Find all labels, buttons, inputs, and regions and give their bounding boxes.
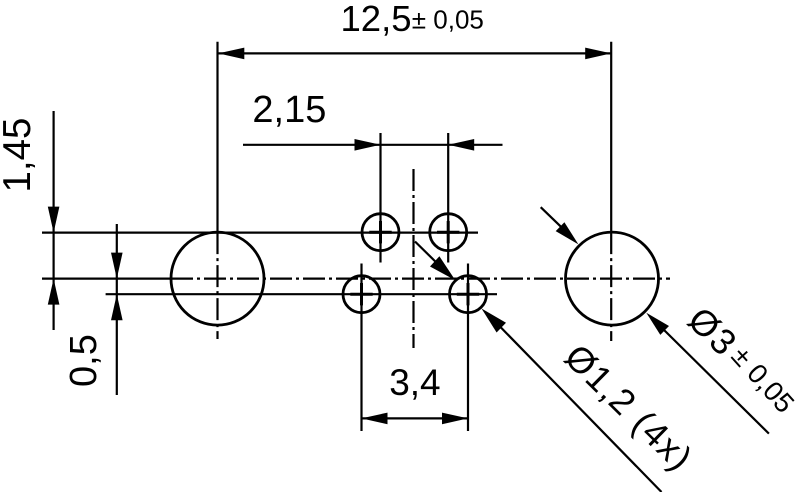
svg-text:0,5: 0,5 [63, 334, 105, 387]
arrowhead at big right hole upper-left [556, 222, 579, 244]
arrowhead 12,5 left [218, 48, 244, 60]
arrowhead 0,5 up [111, 294, 123, 320]
center cross bottom-left small hole [350, 283, 372, 305]
arrowhead 2,15 left [355, 139, 381, 151]
hole small bottom-right Ø1,2 [450, 276, 487, 313]
arrowhead at bottom-right small hole upper-left [430, 256, 455, 280]
wire: vertical dash-dot centerline between small holes [412, 169, 414, 348]
hole small bottom-left Ø1,2 [343, 276, 380, 313]
wire: extension line through top-right small hole [447, 133, 449, 263]
wire: stem of 1,45 dimension [52, 111, 54, 330]
arrowhead 0,5 down [111, 253, 123, 279]
wire: extension line through top-left small hole [379, 133, 381, 263]
svg-text:2,15: 2,15 [252, 89, 326, 131]
wire: leader line to bottom-right small hole upper-left [415, 242, 445, 272]
wire: dimension line 2,15 [243, 144, 503, 146]
arrowhead Ø3 leader [646, 313, 669, 335]
hole big left Ø3 [171, 232, 264, 325]
center cross bottom-right small hole [457, 283, 479, 305]
wire: horizontal line through top small hole centers y=232.6 [42, 232, 478, 234]
wire: leader line Ø3 lower-right [662, 328, 769, 434]
wire: dimension line 12,5 [218, 52, 611, 54]
wire: extension line through bottom-left small hole [360, 264, 362, 432]
arrowhead 1,45 up [48, 279, 60, 305]
wire: right extension line of 12,5 through big right hole [610, 42, 612, 232]
svg-text:3,4: 3,4 [389, 362, 440, 403]
svg-text:± 0,05: ± 0,05 [412, 5, 484, 35]
arrowhead Ø1,2 leader [482, 309, 507, 333]
hole small top-left Ø1,2 [362, 214, 399, 251]
wire: stem of 0,5 dimension [116, 224, 118, 395]
arrowhead 12,5 right [585, 48, 611, 60]
hole big right Ø3 [566, 232, 659, 325]
svg-text:1,45: 1,45 [0, 118, 39, 193]
hole small top-right Ø1,2 [430, 214, 467, 251]
wire: extension line through bottom-right small hole [467, 264, 469, 432]
svg-text:12,5: 12,5 [341, 0, 412, 39]
wire: leader line to big right hole upper-left [541, 207, 564, 230]
arrowhead 3,4 left [362, 413, 388, 425]
center cross top-right small hole [437, 221, 459, 243]
arrowhead 1,45 down [48, 207, 60, 233]
wire: left extension line of 12,5 through big left hole [216, 42, 218, 232]
wire: horizontal line through bottom small hole centers y=294.2 [106, 293, 497, 295]
wire: dimension line 3,4 [362, 417, 469, 419]
wire: leader line Ø1,2 lower-right [498, 325, 662, 492]
arrowhead 3,4 right [442, 413, 468, 425]
center cross top-left small hole [369, 221, 391, 243]
wire: horizontal dash-dot centerline y=278.6 [42, 278, 171, 280]
arrowhead 2,15 right [448, 139, 474, 151]
